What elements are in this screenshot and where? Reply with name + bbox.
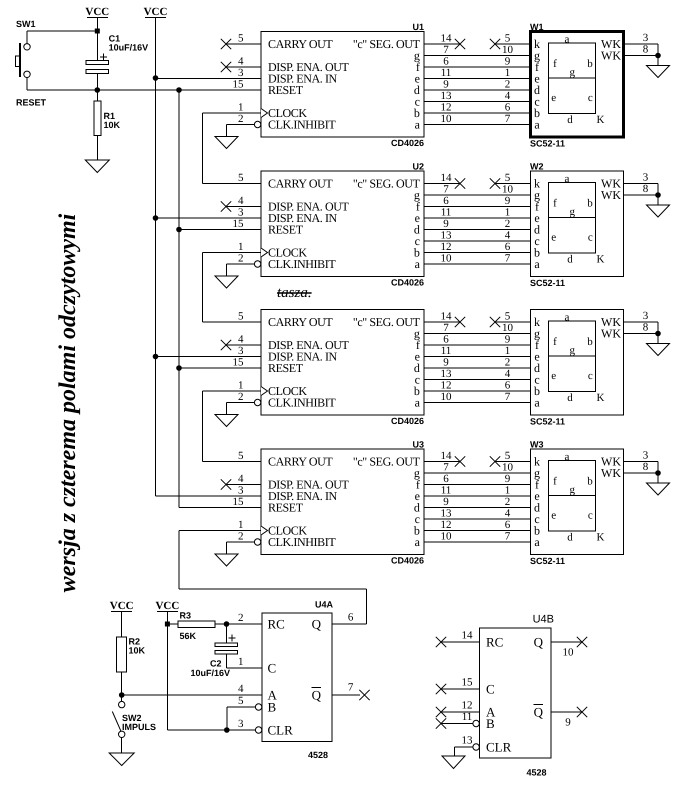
svg-text:8: 8 — [643, 322, 649, 334]
svg-text:4528: 4528 — [526, 768, 546, 778]
svg-text:5: 5 — [238, 33, 244, 45]
svg-text:K: K — [597, 392, 605, 404]
svg-text:7: 7 — [443, 44, 449, 56]
svg-text:CARRY OUT: CARRY OUT — [268, 177, 333, 191]
svg-text:4528: 4528 — [308, 750, 328, 760]
svg-text:b: b — [587, 58, 593, 70]
svg-text:C: C — [268, 660, 277, 675]
svg-text:a: a — [534, 535, 540, 549]
svg-text:RESET: RESET — [268, 83, 304, 97]
svg-text:3: 3 — [643, 310, 649, 322]
svg-text:13: 13 — [441, 368, 453, 380]
svg-text:15: 15 — [233, 496, 245, 508]
svg-text:c: c — [588, 370, 593, 382]
svg-text:13: 13 — [462, 735, 474, 747]
svg-text:15: 15 — [233, 218, 245, 230]
svg-text:10K: 10K — [129, 646, 146, 656]
svg-text:CARRY OUT: CARRY OUT — [268, 315, 333, 329]
svg-text:"c" SEG. OUT: "c" SEG. OUT — [353, 315, 421, 329]
svg-text:6: 6 — [443, 473, 449, 485]
svg-text:9: 9 — [505, 334, 511, 346]
svg-text:6: 6 — [443, 56, 449, 68]
svg-text:c: c — [588, 92, 593, 104]
svg-text:"c" SEG. OUT: "c" SEG. OUT — [353, 455, 421, 469]
svg-text:C2: C2 — [210, 659, 222, 669]
svg-text:10K: 10K — [104, 120, 121, 130]
svg-text:13: 13 — [441, 508, 453, 520]
svg-text:c: c — [588, 510, 593, 522]
svg-text:5: 5 — [238, 311, 244, 323]
svg-text:10uF/16V: 10uF/16V — [191, 668, 231, 678]
svg-text:WK: WK — [601, 466, 621, 480]
svg-text:e: e — [551, 92, 556, 104]
svg-text:IMPULS: IMPULS — [122, 722, 156, 732]
svg-text:a: a — [534, 396, 540, 410]
svg-text:1: 1 — [238, 241, 244, 253]
svg-text:14: 14 — [441, 172, 453, 184]
svg-text:12: 12 — [441, 241, 452, 253]
svg-text:B: B — [486, 716, 495, 731]
svg-text:12: 12 — [441, 519, 452, 531]
svg-text:9: 9 — [565, 717, 571, 729]
svg-text:d: d — [567, 392, 573, 404]
svg-text:5: 5 — [238, 172, 244, 184]
svg-text:2: 2 — [505, 218, 511, 230]
svg-text:3: 3 — [238, 345, 244, 357]
svg-text:e: e — [551, 232, 556, 244]
svg-text:10: 10 — [441, 113, 453, 125]
svg-text:Q: Q — [534, 634, 544, 649]
svg-text:d: d — [567, 114, 573, 126]
svg-text:3: 3 — [643, 32, 649, 44]
svg-text:RESET: RESET — [16, 98, 47, 108]
svg-text:RC: RC — [486, 634, 503, 649]
svg-text:CLR: CLR — [268, 722, 294, 737]
svg-text:3: 3 — [238, 485, 244, 497]
svg-text:U2: U2 — [412, 162, 424, 172]
svg-text:1: 1 — [238, 519, 244, 531]
svg-text:9: 9 — [443, 496, 449, 508]
svg-text:1: 1 — [505, 485, 511, 497]
svg-text:14: 14 — [441, 311, 453, 323]
svg-text:5: 5 — [238, 450, 244, 462]
svg-text:4: 4 — [238, 334, 244, 346]
svg-text:f: f — [553, 475, 557, 487]
svg-text:2: 2 — [238, 253, 244, 265]
svg-text:1: 1 — [505, 345, 511, 357]
svg-text:2: 2 — [505, 79, 511, 91]
svg-text:13: 13 — [441, 230, 453, 242]
svg-text:7: 7 — [348, 682, 354, 694]
svg-text:f: f — [553, 336, 557, 348]
svg-text:15: 15 — [233, 357, 245, 369]
svg-text:R3: R3 — [180, 611, 192, 621]
svg-text:7: 7 — [505, 391, 511, 403]
svg-text:Q: Q — [312, 687, 322, 702]
svg-text:SC52-11: SC52-11 — [530, 278, 565, 288]
svg-text:12: 12 — [462, 700, 473, 712]
svg-text:a: a — [565, 33, 570, 45]
svg-text:a: a — [565, 311, 570, 323]
svg-text:9: 9 — [443, 79, 449, 91]
svg-text:9: 9 — [443, 357, 449, 369]
svg-text:U4B: U4B — [533, 614, 554, 626]
svg-text:8: 8 — [643, 183, 649, 195]
svg-text:12: 12 — [441, 102, 452, 114]
svg-text:CD4026: CD4026 — [391, 138, 424, 148]
svg-text:6: 6 — [443, 334, 449, 346]
svg-text:6: 6 — [505, 519, 511, 531]
svg-text:2: 2 — [505, 357, 511, 369]
svg-text:11: 11 — [441, 67, 452, 79]
svg-text:1: 1 — [505, 207, 511, 219]
svg-text:10: 10 — [502, 322, 514, 334]
svg-text:W1: W1 — [530, 22, 544, 32]
svg-text:13: 13 — [441, 90, 453, 102]
svg-text:a: a — [534, 257, 540, 271]
svg-text:K: K — [597, 114, 605, 126]
svg-text:2: 2 — [238, 391, 244, 403]
svg-text:9: 9 — [505, 56, 511, 68]
svg-text:VCC: VCC — [110, 600, 134, 612]
svg-text:RC: RC — [268, 616, 285, 631]
svg-text:56K: 56K — [180, 631, 197, 641]
svg-text:WK: WK — [601, 327, 621, 341]
svg-text:3: 3 — [238, 718, 244, 730]
svg-text:15: 15 — [462, 677, 474, 689]
svg-text:11: 11 — [462, 711, 473, 723]
svg-text:f: f — [553, 197, 557, 209]
svg-text:g: g — [570, 484, 576, 496]
svg-text:K: K — [597, 254, 605, 266]
svg-text:7: 7 — [443, 322, 449, 334]
svg-text:VCC: VCC — [85, 6, 109, 18]
svg-text:b: b — [587, 336, 593, 348]
svg-text:g: g — [570, 67, 576, 79]
svg-text:RESET: RESET — [268, 361, 304, 375]
svg-text:10uF/16V: 10uF/16V — [109, 43, 149, 53]
svg-text:10: 10 — [502, 44, 514, 56]
svg-text:5: 5 — [505, 450, 511, 462]
svg-text:3: 3 — [643, 172, 649, 184]
svg-text:14: 14 — [441, 450, 453, 462]
svg-text:9: 9 — [443, 218, 449, 230]
svg-text:10: 10 — [441, 531, 453, 543]
svg-text:a: a — [565, 173, 570, 185]
svg-text:9: 9 — [505, 473, 511, 485]
svg-text:4: 4 — [238, 195, 244, 207]
svg-text:10: 10 — [502, 462, 514, 474]
svg-text:4: 4 — [238, 683, 244, 695]
svg-text:4: 4 — [505, 90, 511, 102]
svg-text:U1: U1 — [412, 22, 424, 32]
svg-text:2: 2 — [238, 531, 244, 543]
svg-text:6: 6 — [348, 612, 354, 624]
svg-text:1: 1 — [505, 67, 511, 79]
svg-text:14: 14 — [462, 630, 474, 642]
svg-text:Q: Q — [312, 616, 322, 631]
svg-text:4: 4 — [238, 56, 244, 68]
svg-text:11: 11 — [441, 207, 452, 219]
svg-text:CLK.INHIBIT: CLK.INHIBIT — [268, 396, 336, 410]
svg-text:1: 1 — [238, 102, 244, 114]
svg-text:7: 7 — [443, 462, 449, 474]
svg-text:11: 11 — [441, 345, 452, 357]
svg-text:B: B — [268, 699, 277, 714]
svg-text:SC52-11: SC52-11 — [530, 556, 565, 566]
svg-text:e: e — [551, 370, 556, 382]
svg-text:CLK.INHIBIT: CLK.INHIBIT — [268, 535, 336, 549]
svg-text:CLK.INHIBIT: CLK.INHIBIT — [268, 118, 336, 132]
svg-text:f: f — [553, 58, 557, 70]
svg-text:CD4026: CD4026 — [391, 416, 424, 426]
svg-text:5: 5 — [505, 172, 511, 184]
svg-text:"c" SEG. OUT: "c" SEG. OUT — [353, 177, 421, 191]
svg-text:d: d — [567, 254, 573, 266]
svg-text:10: 10 — [441, 391, 453, 403]
svg-text:a: a — [534, 118, 540, 132]
svg-text:3: 3 — [643, 450, 649, 462]
svg-text:e: e — [551, 510, 556, 522]
svg-text:4: 4 — [505, 368, 511, 380]
svg-text:g: g — [570, 345, 576, 357]
svg-text:g: g — [570, 206, 576, 218]
svg-text:5: 5 — [505, 33, 511, 45]
svg-text:10: 10 — [563, 647, 575, 659]
svg-text:CD4026: CD4026 — [391, 278, 424, 288]
svg-text:d: d — [567, 532, 573, 544]
svg-text:W3: W3 — [530, 440, 544, 450]
svg-text:8: 8 — [643, 461, 649, 473]
svg-text:VCC: VCC — [155, 600, 179, 612]
svg-text:14: 14 — [441, 33, 453, 45]
svg-text:7: 7 — [505, 531, 511, 543]
svg-text:7: 7 — [443, 184, 449, 196]
svg-text:SW1: SW1 — [16, 19, 36, 29]
svg-text:3: 3 — [238, 67, 244, 79]
svg-text:CARRY OUT: CARRY OUT — [268, 455, 333, 469]
svg-text:VCC: VCC — [144, 6, 168, 18]
svg-text:CARRY OUT: CARRY OUT — [268, 37, 333, 51]
svg-text:tasza.: tasza. — [277, 285, 312, 301]
svg-text:2: 2 — [505, 496, 511, 508]
svg-text:2: 2 — [238, 612, 244, 624]
svg-text:1: 1 — [238, 656, 244, 668]
svg-text:3: 3 — [238, 207, 244, 219]
svg-text:SC52-11: SC52-11 — [530, 139, 565, 149]
svg-text:5: 5 — [238, 695, 244, 707]
svg-text:WK: WK — [601, 49, 621, 63]
svg-text:b: b — [587, 197, 593, 209]
svg-text:6: 6 — [505, 380, 511, 392]
svg-text:11: 11 — [441, 485, 452, 497]
svg-text:K: K — [597, 532, 605, 544]
svg-text:CLR: CLR — [486, 739, 512, 754]
svg-text:4: 4 — [505, 230, 511, 242]
svg-text:2: 2 — [238, 113, 244, 125]
svg-text:b: b — [587, 475, 593, 487]
svg-text:CLK.INHIBIT: CLK.INHIBIT — [268, 257, 336, 271]
svg-text:1: 1 — [238, 380, 244, 392]
svg-text:7: 7 — [505, 253, 511, 265]
svg-text:8: 8 — [643, 44, 649, 56]
svg-text:7: 7 — [505, 113, 511, 125]
svg-text:10: 10 — [502, 184, 514, 196]
svg-text:W2: W2 — [530, 162, 544, 172]
svg-text:wersja z czterema polami odczy: wersja z czterema polami odczytowymi — [55, 213, 81, 592]
svg-text:U3: U3 — [412, 440, 424, 450]
svg-text:Q: Q — [534, 704, 544, 719]
svg-text:C: C — [486, 681, 495, 696]
svg-text:RESET: RESET — [268, 223, 304, 237]
svg-text:4: 4 — [238, 473, 244, 485]
svg-text:15: 15 — [233, 79, 245, 91]
svg-text:RESET: RESET — [268, 501, 304, 515]
svg-text:6: 6 — [505, 102, 511, 114]
svg-text:U4A: U4A — [315, 600, 334, 610]
svg-text:WK: WK — [601, 188, 621, 202]
svg-text:SC52-11: SC52-11 — [530, 417, 565, 427]
svg-text:6: 6 — [443, 195, 449, 207]
svg-text:5: 5 — [505, 311, 511, 323]
svg-text:9: 9 — [505, 195, 511, 207]
svg-text:c: c — [588, 232, 593, 244]
svg-text:"c" SEG. OUT: "c" SEG. OUT — [353, 37, 421, 51]
svg-text:12: 12 — [441, 380, 452, 392]
svg-text:4: 4 — [505, 508, 511, 520]
svg-text:10: 10 — [441, 253, 453, 265]
svg-text:6: 6 — [505, 241, 511, 253]
svg-text:a: a — [565, 451, 570, 463]
svg-text:CD4026: CD4026 — [391, 556, 424, 566]
